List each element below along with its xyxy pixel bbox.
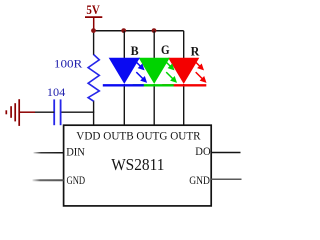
svg-text:B: B	[131, 44, 139, 58]
LED R triangle	[168, 58, 199, 84]
wire 5V rail	[94, 30, 184, 32]
ground bar 3	[10, 106, 12, 118]
LED B triangle	[109, 58, 140, 84]
svg-text:5V: 5V	[86, 3, 99, 17]
svg-text:G: G	[161, 43, 170, 57]
LED R cathode bar	[162, 84, 206, 86]
wire anode LED R	[183, 31, 185, 59]
resistor 100R	[88, 55, 99, 102]
wire anode LED G	[153, 31, 155, 59]
LED G arrow upper	[164, 60, 175, 71]
svg-text:GND: GND	[189, 173, 210, 187]
LED R arrow upper	[193, 60, 204, 71]
svg-text:DIN: DIN	[66, 145, 85, 159]
ground stub wire	[19, 111, 35, 113]
LED B cathode bar	[103, 84, 144, 86]
LED B arrow lower	[136, 72, 147, 83]
svg-text:100R: 100R	[54, 56, 82, 70]
wire ground to capacitor	[35, 111, 55, 113]
svg-text:WS2811: WS2811	[111, 155, 164, 174]
svg-text:R: R	[191, 44, 201, 58]
LED G triangle	[139, 58, 170, 84]
svg-text:104: 104	[47, 85, 65, 99]
wire GND right	[211, 178, 241, 180]
wire GND left	[33, 179, 64, 181]
svg-text:VDD OUTB OUTG OUTR: VDD OUTB OUTG OUTR	[76, 129, 201, 142]
wire anode LED B	[123, 31, 125, 59]
wire cathode LED B to OUTB pin	[123, 84, 125, 126]
ground bar 1	[18, 99, 20, 126]
LED G arrow lower	[166, 72, 177, 83]
LED G cathode bar	[133, 84, 174, 86]
power 5V bar	[85, 16, 102, 18]
ground bar 2	[14, 103, 16, 121]
LED B arrow upper	[134, 60, 145, 71]
wire capacitor to VDD node	[61, 111, 94, 113]
wire cathode LED R to OUTR pin	[183, 84, 185, 126]
power 5V stem wire	[93, 17, 95, 30]
LED R arrow lower	[196, 72, 207, 83]
op-amp/IC U1 WS2811 body	[64, 125, 212, 206]
capacitor 104 plate left	[53, 99, 55, 125]
wire resistor to chip VDD pin	[93, 101, 95, 126]
junction dot at 5V	[91, 28, 96, 33]
ground bar 4	[5, 110, 7, 114]
capacitor 104 plate right	[60, 99, 62, 125]
svg-text:GND: GND	[67, 173, 86, 187]
svg-text:DO: DO	[195, 144, 211, 158]
wire VDD drop to resistor	[93, 31, 95, 55]
junction dot at LED G	[152, 28, 157, 33]
wire cathode LED G to OUTG pin	[153, 84, 155, 126]
wire DO output	[211, 152, 240, 154]
junction dot at LED B	[121, 28, 126, 33]
